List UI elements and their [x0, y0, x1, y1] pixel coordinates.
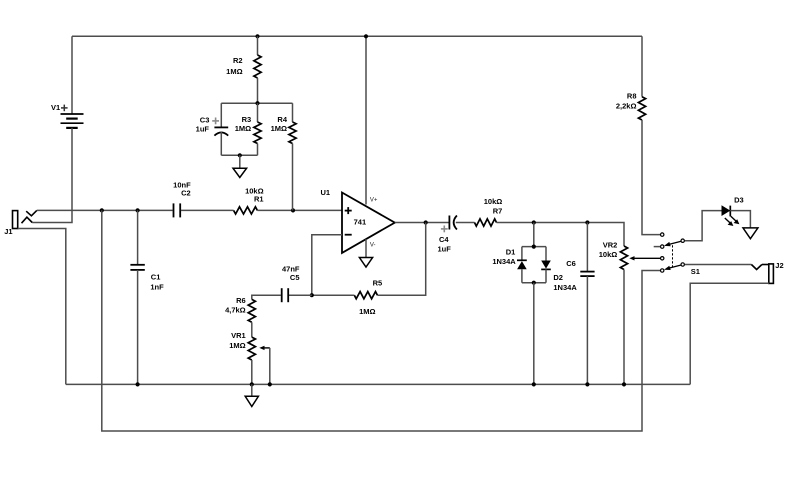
ground VR1 — [245, 384, 258, 406]
svg-text:1nF: 1nF — [150, 283, 164, 292]
node VR1 bottom junction — [250, 382, 254, 386]
wire op-amp inverting input to C5 node — [312, 235, 342, 296]
ground bias network — [233, 155, 247, 177]
potentiometer VR2 10k — [599, 241, 660, 270]
ground op-amp V- — [359, 258, 372, 268]
svg-text:V-: V- — [370, 242, 376, 248]
svg-text:C6: C6 — [566, 259, 576, 268]
svg-text:R8: R8 — [627, 92, 637, 101]
node C5 R5 junction — [310, 293, 314, 297]
node bias top rail junction — [255, 101, 259, 105]
node diode top rail junction — [532, 245, 536, 249]
wire R6 to VR1 — [251, 322, 253, 337]
svg-text:4,7kΩ: 4,7kΩ — [225, 305, 246, 314]
svg-text:C3: C3 — [200, 115, 210, 124]
node output junction — [424, 220, 428, 224]
node C1 to ground bus — [136, 382, 140, 386]
svg-text:1MΩ: 1MΩ — [359, 307, 375, 316]
resistor R5 1M — [354, 278, 382, 316]
wire VR1 wiper to ground bus — [269, 348, 271, 385]
wire S1 to J2 tip — [685, 264, 752, 266]
svg-text:D3: D3 — [734, 196, 744, 205]
resistor R3 1M — [235, 103, 261, 155]
resistor R7 10k — [475, 197, 503, 226]
wire bias network top rail — [221, 102, 292, 104]
capacitor C5 47nF — [282, 265, 312, 303]
wire VR2 bottom to ground bus — [623, 270, 625, 385]
wire C2 to R1 — [181, 209, 234, 211]
wire R5 to C5 node — [312, 294, 355, 296]
wire op-amp output to C4 — [395, 222, 449, 224]
svg-text:R4: R4 — [277, 115, 287, 124]
svg-text:S1: S1 — [691, 267, 700, 276]
svg-text:D1: D1 — [506, 247, 516, 256]
svg-text:C1: C1 — [151, 273, 161, 282]
capacitor C3 1uF — [196, 103, 229, 155]
node bias bottom rail junction — [238, 153, 242, 157]
svg-text:C4: C4 — [439, 235, 449, 244]
svg-text:C2: C2 — [181, 188, 191, 197]
svg-text:R3: R3 — [242, 115, 252, 124]
input jack J1 — [4, 210, 37, 236]
svg-text:VR2: VR2 — [603, 241, 618, 250]
diode D2 1N34A — [541, 247, 577, 292]
node input tip junction — [100, 208, 104, 212]
resistor R2 1M — [226, 36, 261, 103]
svg-text:U1: U1 — [321, 188, 331, 197]
node R2 top junction — [255, 34, 259, 38]
node diode ground junction — [532, 382, 536, 386]
wire C4 to R7 — [456, 222, 475, 224]
resistor R1 10k — [234, 187, 264, 214]
wire S1 to LED D3 — [685, 211, 722, 241]
svg-text:C5: C5 — [290, 273, 300, 282]
wire ground bus — [66, 383, 690, 385]
svg-text:R2: R2 — [233, 56, 243, 65]
wire J1 sleeve to ground bus — [18, 229, 66, 385]
capacitor C2 10nF — [173, 180, 191, 217]
svg-text:1MΩ: 1MΩ — [226, 67, 242, 76]
svg-text:2,2kΩ: 2,2kΩ — [616, 101, 637, 110]
wire diode pair top rail — [522, 246, 546, 248]
svg-text:R1: R1 — [254, 195, 264, 204]
wire junction down to diode pair — [533, 223, 535, 247]
svg-text:1uF: 1uF — [196, 124, 210, 133]
potentiometer VR1 1M — [229, 331, 270, 360]
resistor R6 4.7k — [225, 296, 255, 322]
svg-text:V1: V1 — [51, 103, 60, 112]
node VR1 wiper junction — [268, 382, 272, 386]
svg-text:VR1: VR1 — [231, 331, 246, 340]
wire diode pair to ground bus — [533, 283, 535, 385]
svg-text:J2: J2 — [775, 261, 783, 270]
wire J2 sleeve to ground bus — [690, 283, 769, 384]
op-amp U1 741 — [321, 36, 395, 257]
switch S1 DPDT — [654, 233, 700, 276]
svg-text:V+: V+ — [370, 197, 378, 203]
node diode bottom rail junction — [532, 281, 536, 285]
wire J1 tip to C2 — [37, 209, 173, 211]
wire VR1 bottom to ground bus — [251, 360, 253, 384]
output jack J2 — [751, 261, 783, 283]
wire R1 to op-amp non-inverting input — [257, 209, 342, 211]
svg-text:1MΩ: 1MΩ — [235, 124, 251, 133]
wire bias network bottom rail — [221, 154, 257, 156]
node R4 bottom junction — [291, 208, 295, 212]
resistor R4 1M — [271, 103, 297, 210]
wire feedback from output to R5 — [377, 223, 425, 296]
svg-text:10kΩ: 10kΩ — [599, 250, 618, 259]
ground LED — [743, 228, 758, 239]
LED D3 — [722, 196, 744, 226]
svg-text:R7: R7 — [493, 206, 503, 215]
capacitor C1 1nF — [130, 210, 164, 384]
svg-text:J1: J1 — [4, 227, 12, 236]
wire R7 to VR2 — [497, 223, 625, 247]
wire C5 to R6 — [252, 295, 281, 299]
svg-text:1MΩ: 1MΩ — [229, 341, 245, 350]
resistor R8 2.2k — [616, 36, 660, 234]
svg-text:741: 741 — [354, 217, 367, 226]
svg-text:D2: D2 — [553, 273, 563, 282]
capacitor C6 — [566, 223, 594, 385]
svg-text:10kΩ: 10kΩ — [484, 197, 503, 206]
diode D1 1N34A — [492, 247, 526, 283]
node VR2 bottom junction — [622, 382, 626, 386]
wire LED to ground — [730, 211, 750, 228]
node op-amp V+ junction — [364, 34, 368, 38]
battery V1 9V — [51, 36, 83, 128]
wire top supply rail — [72, 35, 642, 37]
node C1 top junction — [136, 208, 140, 212]
capacitor C4 1uF — [438, 216, 457, 254]
svg-text:1N34A: 1N34A — [492, 257, 516, 266]
wire bypass line (tip to switch via bottom) — [102, 210, 660, 431]
svg-text:R5: R5 — [373, 278, 383, 287]
svg-text:1N34A: 1N34A — [553, 283, 577, 292]
node C6 bottom junction — [585, 382, 589, 386]
node C6 top junction — [585, 220, 589, 224]
node diode branch junction — [532, 220, 536, 224]
wire V1 negative to J1 ring switch — [32, 128, 72, 223]
svg-text:R6: R6 — [236, 296, 246, 305]
svg-text:1MΩ: 1MΩ — [271, 124, 287, 133]
svg-text:1uF: 1uF — [438, 244, 452, 253]
wire diode pair bottom rail — [522, 282, 546, 284]
